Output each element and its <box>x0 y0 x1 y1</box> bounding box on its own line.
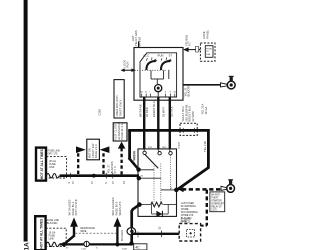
svg-text:YEL 21B: YEL 21B <box>203 141 207 152</box>
connector ticks on bus <box>71 173 113 179</box>
wire from switch to stud <box>183 84 221 86</box>
main battery feed wire W1/W2 <box>127 104 208 243</box>
fuse element box <box>205 46 213 58</box>
fusible link dashed box 2 <box>46 228 66 246</box>
svg-text:HOT AT ALL TIMES: HOT AT ALL TIMES <box>39 218 43 249</box>
wire W1: top run, right drop and diagonal to relay <box>130 130 209 189</box>
svg-text:RELAY: RELAY <box>132 151 136 160</box>
micro labels below bottom wire <box>66 247 128 250</box>
thin dashed link between stems <box>75 232 116 234</box>
svg-text:LT BLU: LT BLU <box>181 220 190 224</box>
battery stud <box>230 76 233 81</box>
svg-text:PAGE 21-3: PAGE 21-3 <box>94 144 98 158</box>
contact circles <box>143 151 146 154</box>
wire label above stub <box>131 30 141 46</box>
svg-text:PANEL: PANEL <box>205 29 209 38</box>
svg-text:S: S <box>67 182 71 184</box>
ignition switch inner housing (chamfered) <box>140 53 177 97</box>
svg-text:262 BLK: 262 BLK <box>170 106 174 117</box>
wire W2: long vertical drop <box>128 130 131 159</box>
svg-text:C262: C262 <box>98 108 102 115</box>
switch frame H <box>151 70 169 84</box>
prove-out lamp circle <box>155 85 162 92</box>
arrow left into label box <box>100 146 110 153</box>
riser 1 (dashed) <box>77 153 79 174</box>
svg-text:HOT AT ALL TIMES: HOT AT ALL TIMES <box>40 148 44 179</box>
svg-text:USED W/O ANTI-: USED W/O ANTI- <box>115 95 119 117</box>
svg-text:37: 37 <box>71 180 75 184</box>
lamp stub to terminal <box>157 92 159 97</box>
svg-text:32 S206: 32 S206 <box>191 111 195 122</box>
svg-text:FUSE: FUSE <box>206 48 212 50</box>
junction dot at W2 foot <box>129 241 133 245</box>
fusible link element 2 <box>46 242 59 246</box>
mid label box (starter motor relay feed) <box>87 139 100 160</box>
svg-text:WARN LTS: WARN LTS <box>118 201 122 215</box>
bus junction dot <box>92 174 96 178</box>
plunger dotted links <box>153 164 155 204</box>
tick on branch <box>161 231 163 237</box>
page binding edge bar <box>23 0 30 250</box>
coil-diode links <box>140 205 177 215</box>
wire labels above <box>184 35 191 46</box>
svg-text:C175: C175 <box>211 210 217 212</box>
inline connector circle <box>84 241 89 246</box>
wire color labels on drop wires <box>139 101 174 117</box>
svg-text:C175: C175 <box>177 141 181 148</box>
svg-text:RED/LT BLU: RED/LT BLU <box>152 101 156 117</box>
A2 destination labels <box>111 197 122 215</box>
position micro labels <box>143 54 172 58</box>
riser 3 (dashed) <box>120 148 122 174</box>
svg-text:4C: 4C <box>135 246 140 250</box>
svg-text:RUN: RUN <box>158 54 164 58</box>
relay label (left of box) <box>132 151 136 164</box>
fuse panel label above <box>202 29 209 38</box>
battery stud terminal 1 (top right) <box>183 76 235 96</box>
contact position ticks <box>146 57 170 61</box>
fusible link dashed box <box>46 157 66 178</box>
svg-text:ACC: ACC <box>143 54 149 58</box>
fusible link element <box>46 174 59 178</box>
svg-text:THEFT: THEFT <box>211 198 219 200</box>
svg-text:10A: 10A <box>206 53 210 56</box>
svg-text:BLK/ORN: BLK/ORN <box>187 84 191 96</box>
battery stud 2 <box>229 180 232 185</box>
svg-text:INTERRUPT: INTERRUPT <box>211 204 225 206</box>
arrow up into upper note box <box>118 142 126 149</box>
svg-text:ST: ST <box>169 54 173 58</box>
fuse panel (top right) <box>183 29 215 61</box>
diode D1 <box>152 213 169 215</box>
starter relay <box>132 141 181 217</box>
svg-text:WIRE: WIRE <box>80 231 86 233</box>
bottom boxed connector label <box>134 244 147 250</box>
small note right of label box 2 <box>47 219 60 225</box>
ignition switch outer box <box>134 48 183 101</box>
HOT AT ALL TIMES label box 2 <box>35 216 45 250</box>
upper note box 2 <box>113 123 127 141</box>
svg-text:32 RED: 32 RED <box>145 107 149 117</box>
armature blade <box>145 155 158 169</box>
svg-text:S: S <box>104 182 108 184</box>
eyelet terminal <box>221 83 228 87</box>
key linkage double arrow <box>121 68 136 72</box>
fuse panel dashed box <box>200 43 215 61</box>
svg-text:654 RED: 654 RED <box>120 230 124 241</box>
top terminal ticks <box>144 149 170 151</box>
terminal ticks bottom of switch <box>142 94 175 97</box>
svg-text:WHT/PNK: WHT/PNK <box>139 104 143 117</box>
terminal junction dots <box>136 167 140 171</box>
starter relay box <box>138 149 177 217</box>
small note right of label box <box>48 150 61 156</box>
svg-text:LINK: LINK <box>49 166 55 169</box>
ignition switch assembly <box>98 30 184 149</box>
coil winding <box>151 202 163 207</box>
svg-text:32: 32 <box>157 226 161 230</box>
fuse symbol on wire <box>196 46 199 52</box>
battery stud terminal 2 (right middle) <box>179 180 235 226</box>
switch contact arc 1 <box>146 61 155 70</box>
A1 destination labels <box>68 199 79 215</box>
bus wire <box>60 174 139 177</box>
connector oval on W2 <box>127 228 136 235</box>
label on dashed link <box>80 227 95 233</box>
svg-text:RESISTANCE: RESISTANCE <box>80 227 95 230</box>
svg-text:16 GA: 16 GA <box>204 106 208 114</box>
svg-text:STARTER: STARTER <box>211 200 222 203</box>
internal connections <box>139 170 176 190</box>
svg-text:21: 21 <box>122 180 126 184</box>
svg-text:RUN: RUN <box>126 62 130 68</box>
arrow branch A2: dot, stem and arrowhead <box>115 242 119 246</box>
svg-text:THEFT ONLY: THEFT ONLY <box>119 99 123 116</box>
bypass dashed box (S terminal) <box>179 224 200 241</box>
wire label below fuse panel <box>201 103 208 114</box>
dashed drop to bypass connector <box>206 190 208 226</box>
terminal micro labels <box>141 147 174 189</box>
terminal micro labels <box>141 91 178 94</box>
svg-text:HOT: HOT <box>131 35 135 41</box>
svg-text:INST CLSTR: INST CLSTR <box>74 199 78 215</box>
dashed wire to stud 2 <box>182 188 222 191</box>
tick labels below bus <box>67 180 126 184</box>
svg-text:977 C: 977 C <box>113 166 117 173</box>
bordered note box <box>210 192 225 212</box>
labels above bus right part <box>107 161 118 173</box>
junction dot left <box>62 242 66 246</box>
svg-text:37: 37 <box>111 180 115 184</box>
note text block <box>181 202 198 223</box>
arrow branch A1: diagonal, stem and arrowhead <box>64 236 74 245</box>
svg-text:STR: STR <box>148 147 153 149</box>
svg-text:37 BLK: 37 BLK <box>137 37 141 46</box>
eyelet terminal 2 <box>221 186 227 190</box>
svg-text:977: 977 <box>188 41 192 46</box>
svg-text:GRY 175: GRY 175 <box>48 153 58 156</box>
svg-text:LINK: LINK <box>49 237 55 240</box>
wire stub B+ into switch top <box>138 42 140 48</box>
svg-text:RELAY 87: RELAY 87 <box>211 206 222 209</box>
svg-text:BLK/ORN: BLK/ORN <box>47 222 58 225</box>
arrow into relay S terminal <box>179 187 184 192</box>
key linkage dashed line <box>122 69 167 71</box>
HOT AT ALL TIMES label box <box>36 148 46 181</box>
bottom circuit <box>35 197 200 250</box>
branch to bypass: wire right <box>132 233 180 235</box>
fuse link bus (middle left) <box>36 122 139 184</box>
switch contact arc 2 <box>161 61 170 70</box>
wire switch-to-fusepanel with arrows both ends <box>185 49 200 51</box>
svg-text:33 WHT: 33 WHT <box>162 107 166 117</box>
svg-text:37: 37 <box>90 180 94 184</box>
riser 2 (dashed) <box>102 153 104 174</box>
svg-text:W/ ANTI-: W/ ANTI- <box>211 194 221 197</box>
svg-text:GRD: GRD <box>162 147 167 149</box>
arrow right into label box <box>76 146 86 153</box>
in-line connector (dashed box) on W1 <box>180 123 197 135</box>
svg-text:1A: 1A <box>23 242 30 250</box>
svg-text:PAGE 31-1 A: PAGE 31-1 A <box>120 123 124 140</box>
switch wires down to relay <box>144 97 170 150</box>
diagonal branch from W2 to relay <box>129 158 139 170</box>
anti-theft note box (left of switch) <box>114 80 124 118</box>
wire label below <box>183 84 190 96</box>
wire labels above connector <box>181 104 195 121</box>
bottom bus wire <box>59 243 132 245</box>
